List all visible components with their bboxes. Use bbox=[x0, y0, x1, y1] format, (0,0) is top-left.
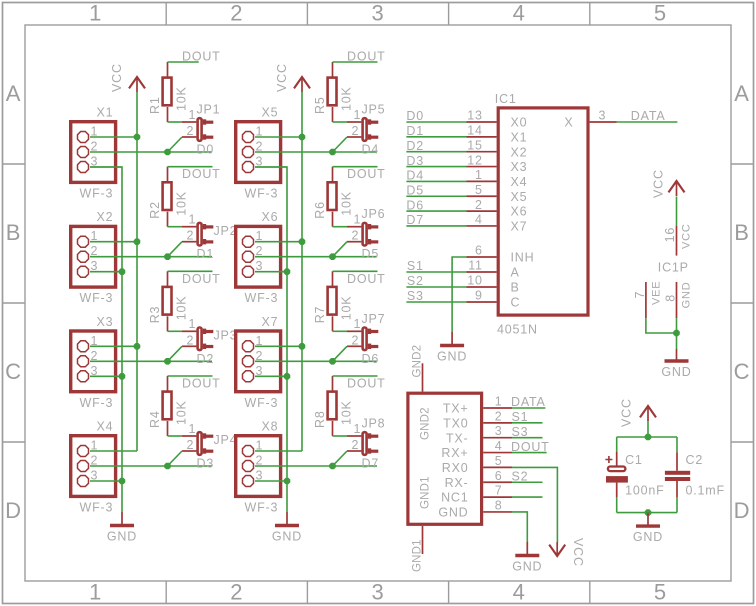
svg-text:WF-3: WF-3 bbox=[80, 291, 114, 305]
capacitor C2 0.1mF bbox=[665, 452, 725, 497]
svg-text:S2: S2 bbox=[407, 274, 424, 288]
wire net D7 horizontal bbox=[255, 465, 377, 467]
wire R4 to JP4 pin1 bbox=[168, 435, 183, 437]
wire GND bus column 1 bbox=[90, 167, 122, 512]
connector U$1 (TX/RX) bbox=[408, 345, 512, 572]
svg-text:GND2: GND2 bbox=[420, 407, 432, 440]
pin TX+ of connector bbox=[483, 407, 512, 409]
svg-text:0.1mF: 0.1mF bbox=[686, 484, 725, 498]
svg-text:A: A bbox=[511, 266, 520, 280]
svg-text:4: 4 bbox=[475, 213, 483, 227]
svg-text:2: 2 bbox=[352, 124, 360, 138]
svg-text:C1: C1 bbox=[625, 453, 643, 467]
svg-text:6: 6 bbox=[475, 244, 483, 258]
svg-text:GND: GND bbox=[661, 365, 691, 379]
svg-text:8: 8 bbox=[495, 498, 503, 512]
svg-text:GND: GND bbox=[107, 530, 137, 544]
svg-text:3: 3 bbox=[599, 109, 607, 123]
junction GND bus column 1 row 4 bbox=[119, 478, 126, 485]
wire VCC bus column 2 bbox=[301, 92, 303, 451]
wire X3 pin1 to VCC bus bbox=[90, 345, 137, 347]
wire JP2 pin2 diagonal bbox=[168, 242, 183, 257]
svg-text:R1: R1 bbox=[148, 96, 162, 114]
svg-text:TX-: TX- bbox=[446, 431, 469, 445]
svg-text:DOUT: DOUT bbox=[347, 167, 386, 181]
connector X4 (WF-3) bbox=[71, 420, 116, 515]
jumper JP1 bbox=[182, 103, 220, 141]
svg-text:WF-3: WF-3 bbox=[80, 501, 114, 515]
wire R8 to JP8 pin1 bbox=[333, 435, 348, 437]
svg-text:S1: S1 bbox=[512, 410, 529, 424]
wire net S3 at connector bbox=[512, 437, 543, 439]
svg-text:DATA: DATA bbox=[511, 395, 546, 409]
pin INH of IC1 bbox=[467, 256, 497, 258]
svg-text:X: X bbox=[564, 116, 573, 130]
wire net DOUT at connector bbox=[512, 452, 547, 454]
svg-text:JP2: JP2 bbox=[214, 224, 238, 238]
wire net DOUT stub row 4 col 2 bbox=[333, 375, 378, 377]
power part IC1P bbox=[633, 223, 693, 318]
junction net D6 bbox=[329, 358, 336, 365]
supply VCC column 2 arrow bbox=[275, 63, 310, 92]
svg-text:GND: GND bbox=[681, 282, 693, 309]
wire C1 bottom branch bbox=[616, 497, 618, 513]
jumper JP7 bbox=[347, 312, 385, 350]
wire net D6 horizontal bbox=[255, 360, 377, 362]
svg-text:GND1: GND1 bbox=[412, 539, 424, 572]
svg-text:10: 10 bbox=[467, 274, 483, 288]
svg-text:S2: S2 bbox=[512, 469, 529, 483]
svg-text:100nF: 100nF bbox=[625, 484, 664, 498]
svg-text:R8: R8 bbox=[313, 410, 327, 428]
svg-text:C2: C2 bbox=[686, 453, 704, 467]
junction net D2 bbox=[164, 358, 171, 365]
pin A of IC1 bbox=[467, 271, 497, 273]
svg-text:8: 8 bbox=[664, 294, 678, 302]
svg-text:NC1: NC1 bbox=[441, 491, 468, 505]
svg-text:4: 4 bbox=[513, 580, 526, 605]
svg-text:2: 2 bbox=[230, 580, 243, 605]
svg-text:X5: X5 bbox=[262, 106, 279, 120]
svg-text:RX+: RX+ bbox=[441, 446, 468, 460]
ground GND at IC1P bbox=[661, 349, 691, 379]
svg-text:VCC: VCC bbox=[110, 63, 124, 92]
svg-text:GND: GND bbox=[633, 530, 663, 544]
supply VCC at IC1P bbox=[652, 169, 685, 198]
wire GND bus column 2 bbox=[255, 167, 287, 512]
resistor R4 10K bbox=[148, 376, 189, 436]
svg-text:1: 1 bbox=[89, 0, 102, 25]
svg-text:4: 4 bbox=[495, 439, 503, 453]
svg-text:D0: D0 bbox=[197, 143, 215, 157]
wire net D1 horizontal bbox=[90, 256, 212, 258]
svg-text:RX0: RX0 bbox=[442, 461, 469, 475]
svg-text:D2: D2 bbox=[406, 139, 424, 153]
wire X5 pin1 to VCC bus bbox=[255, 136, 302, 138]
junction GND bus column 1 row 2 bbox=[119, 268, 126, 275]
svg-text:4051N: 4051N bbox=[497, 323, 538, 337]
svg-text:R2: R2 bbox=[148, 201, 162, 219]
svg-text:JP6: JP6 bbox=[362, 207, 386, 221]
pin C of IC1 bbox=[467, 301, 497, 303]
svg-text:DOUT: DOUT bbox=[511, 440, 550, 454]
wire net S2 at IC1 bbox=[406, 286, 466, 288]
svg-text:1: 1 bbox=[354, 422, 362, 436]
supply VCC at capacitors bbox=[620, 398, 657, 427]
svg-text:JP5: JP5 bbox=[362, 103, 386, 117]
pin X2 of IC1 bbox=[467, 151, 497, 153]
wire JP1 pin2 diagonal bbox=[168, 137, 183, 152]
wire GND pin to junction bbox=[676, 318, 678, 333]
svg-text:S1: S1 bbox=[407, 259, 424, 273]
svg-text:IC1: IC1 bbox=[495, 92, 517, 106]
wire JP8 pin2 diagonal bbox=[333, 451, 348, 466]
junction capacitor bottom rail bbox=[645, 509, 652, 516]
svg-text:TX+: TX+ bbox=[443, 402, 469, 416]
svg-text:JP3: JP3 bbox=[214, 329, 238, 343]
wire VCC to capacitor rail bbox=[647, 421, 649, 437]
wire RX0 to VCC bbox=[512, 467, 557, 542]
wire net D3 horizontal bbox=[90, 465, 212, 467]
svg-text:IC1P: IC1P bbox=[658, 261, 689, 275]
ground GND at INH bbox=[437, 332, 467, 364]
svg-text:WF-3: WF-3 bbox=[245, 501, 279, 515]
wire JP3 pin2 diagonal bbox=[168, 346, 183, 361]
svg-text:B: B bbox=[734, 220, 749, 245]
svg-text:10K: 10K bbox=[340, 296, 354, 321]
wire R5 to JP5 pin1 bbox=[333, 121, 348, 123]
svg-text:S3: S3 bbox=[512, 425, 529, 439]
svg-text:10K: 10K bbox=[340, 400, 354, 425]
wire C2 bottom branch bbox=[676, 497, 678, 513]
svg-text:DOUT: DOUT bbox=[347, 377, 386, 391]
wire net D4 horizontal bbox=[255, 151, 377, 153]
pin X1 of IC1 bbox=[467, 136, 497, 138]
svg-text:C: C bbox=[511, 296, 521, 310]
junction GND bus column 2 row 2 bbox=[284, 268, 291, 275]
svg-text:1: 1 bbox=[354, 108, 362, 122]
svg-text:VCC: VCC bbox=[620, 398, 634, 427]
resistor R1 10K bbox=[148, 62, 189, 122]
svg-text:X3: X3 bbox=[511, 160, 528, 174]
svg-text:C: C bbox=[734, 359, 751, 384]
wire net DOUT stub row 2 col 2 bbox=[333, 166, 378, 168]
wire net DOUT stub row 4 col 1 bbox=[168, 375, 213, 377]
svg-text:11: 11 bbox=[468, 259, 483, 273]
svg-text:10K: 10K bbox=[340, 191, 354, 216]
svg-text:D4: D4 bbox=[362, 143, 380, 157]
junction net D7 bbox=[329, 463, 336, 470]
svg-text:14: 14 bbox=[467, 124, 483, 138]
svg-text:3: 3 bbox=[495, 424, 503, 438]
wire net S1 at connector bbox=[512, 422, 543, 424]
jumper JP2 bbox=[182, 213, 237, 246]
pin X3 of IC1 bbox=[467, 166, 497, 168]
junction VCC bus column 1 row 1 bbox=[134, 134, 141, 141]
svg-text:X7: X7 bbox=[262, 315, 279, 329]
wire R7 to JP7 pin1 bbox=[333, 330, 348, 332]
wire X5 pin3 to GND bus bbox=[255, 166, 287, 168]
wire net S1 at IC1 bbox=[406, 271, 466, 273]
svg-text:X2: X2 bbox=[97, 210, 114, 224]
wire X2 pin3 to GND bus bbox=[90, 271, 122, 273]
svg-text:15: 15 bbox=[467, 138, 483, 152]
svg-text:3: 3 bbox=[371, 580, 384, 605]
wire VCC to IC1P pin 16 bbox=[676, 197, 678, 227]
svg-text:B: B bbox=[6, 220, 21, 245]
svg-text:VCC: VCC bbox=[571, 538, 585, 567]
svg-text:D6: D6 bbox=[406, 198, 424, 212]
junction net D3 bbox=[164, 463, 171, 470]
wire X4 pin3 to GND bus bbox=[90, 480, 122, 482]
svg-text:D0: D0 bbox=[406, 109, 424, 123]
wire X6 pin3 to GND bus bbox=[255, 271, 287, 273]
wire net DATA at IC1 bbox=[617, 121, 678, 123]
svg-text:1: 1 bbox=[89, 580, 102, 605]
svg-text:DOUT: DOUT bbox=[182, 167, 221, 181]
wire net D1 at IC1 bbox=[406, 136, 466, 138]
wire VEE/GND to ground bbox=[646, 318, 677, 333]
svg-text:10K: 10K bbox=[175, 86, 189, 111]
svg-text:1: 1 bbox=[354, 317, 362, 331]
svg-text:10K: 10K bbox=[175, 296, 189, 321]
pin B of IC1 bbox=[467, 286, 497, 288]
wire net DOUT stub row 2 col 1 bbox=[168, 166, 213, 168]
connector X7 (WF-3) bbox=[236, 315, 281, 410]
junction VCC bus column 1 row 2 bbox=[134, 238, 141, 245]
svg-text:9: 9 bbox=[475, 289, 483, 303]
pin RX0 of connector bbox=[483, 466, 512, 468]
svg-text:WF-3: WF-3 bbox=[245, 396, 279, 410]
svg-text:VCC: VCC bbox=[652, 169, 666, 198]
wire VCC bus column 1 bbox=[136, 92, 138, 451]
pin RX- of connector bbox=[483, 481, 512, 483]
svg-text:R4: R4 bbox=[148, 410, 162, 428]
wire X6 pin1 to VCC bus bbox=[255, 241, 302, 243]
svg-text:VCC: VCC bbox=[275, 63, 289, 92]
junction IC1P ground bbox=[673, 330, 680, 337]
svg-text:2: 2 bbox=[187, 229, 195, 243]
svg-text:JP8: JP8 bbox=[362, 417, 386, 431]
wire junction to ground at IC1P bbox=[676, 333, 678, 349]
svg-text:GND2: GND2 bbox=[412, 345, 424, 378]
svg-text:1: 1 bbox=[189, 108, 197, 122]
svg-text:4: 4 bbox=[513, 0, 526, 25]
frame row labels left bbox=[5, 81, 22, 523]
jumper JP5 bbox=[347, 103, 385, 141]
svg-text:VCC: VCC bbox=[681, 223, 693, 249]
junction VCC bus column 1 row 3 bbox=[134, 343, 141, 350]
pin X5 of IC1 bbox=[467, 195, 497, 197]
connector X3 (WF-3) bbox=[71, 315, 116, 410]
svg-text:X6: X6 bbox=[262, 210, 279, 224]
svg-text:1: 1 bbox=[354, 213, 362, 227]
jumper JP8 bbox=[347, 417, 385, 455]
svg-text:X1: X1 bbox=[511, 130, 528, 144]
connector X8 (WF-3) bbox=[236, 420, 281, 515]
wire R6 to JP6 pin1 bbox=[333, 226, 348, 228]
connector X2 (WF-3) bbox=[71, 210, 116, 305]
svg-text:R3: R3 bbox=[148, 306, 162, 324]
svg-text:5: 5 bbox=[654, 0, 667, 25]
svg-text:2: 2 bbox=[187, 438, 195, 452]
svg-text:2: 2 bbox=[352, 229, 360, 243]
svg-text:10K: 10K bbox=[175, 400, 189, 425]
svg-text:RX-: RX- bbox=[445, 476, 469, 490]
svg-text:1: 1 bbox=[189, 213, 197, 227]
wire net D4 at IC1 bbox=[406, 180, 466, 182]
wire X2 pin1 to VCC bus bbox=[90, 241, 137, 243]
pin NC1 of connector bbox=[483, 496, 512, 498]
svg-text:3: 3 bbox=[371, 0, 384, 25]
svg-text:D2: D2 bbox=[197, 352, 215, 366]
svg-text:2: 2 bbox=[352, 333, 360, 347]
wire X7 pin1 to VCC bus bbox=[255, 345, 302, 347]
svg-text:1: 1 bbox=[495, 395, 503, 409]
svg-text:13: 13 bbox=[467, 109, 483, 123]
wire net D2 at IC1 bbox=[406, 151, 466, 153]
svg-text:JP1: JP1 bbox=[197, 103, 221, 117]
svg-text:DOUT: DOUT bbox=[182, 272, 221, 286]
svg-text:TX0: TX0 bbox=[443, 416, 468, 430]
wire JP6 pin2 diagonal bbox=[333, 242, 348, 257]
jumper JP4 bbox=[182, 422, 237, 455]
wire JP7 pin2 diagonal bbox=[333, 346, 348, 361]
svg-text:GND: GND bbox=[438, 506, 468, 520]
ground GND at capacitors bbox=[633, 513, 663, 545]
frame row dividers right bbox=[731, 164, 754, 442]
wire X1 pin1 to VCC bus bbox=[90, 136, 137, 138]
svg-text:S3: S3 bbox=[407, 289, 424, 303]
svg-text:2: 2 bbox=[495, 409, 503, 423]
svg-text:6: 6 bbox=[495, 469, 503, 483]
svg-text:GND1: GND1 bbox=[420, 476, 432, 509]
ground GND column 1 bbox=[107, 512, 137, 544]
wire net D6 at IC1 bbox=[406, 210, 466, 212]
svg-text:7: 7 bbox=[495, 484, 503, 498]
wire JP4 pin2 diagonal bbox=[168, 451, 183, 466]
frame column labels bottom bbox=[89, 580, 667, 605]
wire X8 pin3 to GND bus bbox=[255, 480, 287, 482]
svg-text:2: 2 bbox=[230, 0, 243, 25]
svg-text:WF-3: WF-3 bbox=[80, 396, 114, 410]
pin GND of connector bbox=[483, 511, 512, 513]
wire net DOUT stub row 3 col 1 bbox=[168, 270, 213, 272]
resistor R6 10K bbox=[313, 167, 354, 227]
junction VCC bus column 2 row 3 bbox=[299, 343, 306, 350]
junction net D5 bbox=[329, 253, 336, 260]
svg-text:5: 5 bbox=[495, 454, 503, 468]
pin X4 of IC1 bbox=[467, 180, 497, 182]
junction GND bus column 2 row 3 bbox=[284, 373, 291, 380]
frame row labels right bbox=[734, 81, 751, 523]
wire net DOUT stub row 3 col 2 bbox=[333, 270, 378, 272]
capacitor C1 100nF bbox=[605, 452, 664, 498]
junction VCC bus column 2 row 1 bbox=[299, 134, 306, 141]
svg-text:A: A bbox=[6, 81, 21, 106]
svg-text:R5: R5 bbox=[313, 96, 327, 114]
wire net DATA at connector bbox=[512, 407, 545, 409]
svg-text:DOUT: DOUT bbox=[347, 50, 386, 64]
wire net S2 at connector bbox=[512, 481, 543, 483]
svg-text:B: B bbox=[511, 281, 520, 295]
ground GND column 2 bbox=[272, 512, 302, 544]
wire net D7 at IC1 bbox=[406, 225, 466, 227]
svg-text:D7: D7 bbox=[406, 213, 424, 227]
svg-text:D3: D3 bbox=[197, 457, 215, 471]
wire capacitor top rail bbox=[617, 436, 677, 438]
svg-text:2: 2 bbox=[187, 124, 195, 138]
svg-text:D7: D7 bbox=[362, 457, 380, 471]
svg-text:X4: X4 bbox=[511, 175, 528, 189]
svg-text:GND: GND bbox=[437, 350, 467, 364]
svg-text:DOUT: DOUT bbox=[182, 50, 221, 64]
svg-text:D3: D3 bbox=[406, 154, 424, 168]
svg-text:16: 16 bbox=[663, 227, 677, 243]
wire X8 pin1 to VCC bus bbox=[255, 450, 302, 452]
svg-text:7: 7 bbox=[633, 291, 647, 299]
svg-text:X3: X3 bbox=[97, 315, 114, 329]
wire NC1 stub bbox=[512, 496, 543, 498]
svg-text:D5: D5 bbox=[362, 247, 380, 261]
wire net DOUT stub row 1 col 1 bbox=[168, 61, 199, 63]
svg-text:2: 2 bbox=[352, 438, 360, 452]
pin X7 of IC1 bbox=[467, 225, 497, 227]
resistor R2 10K bbox=[148, 167, 189, 227]
svg-text:X8: X8 bbox=[262, 420, 279, 434]
junction net D1 bbox=[164, 253, 171, 260]
jumper JP3 bbox=[182, 317, 237, 350]
pin GND2 of connector bbox=[422, 363, 424, 391]
svg-text:D1: D1 bbox=[197, 247, 215, 261]
svg-text:X2: X2 bbox=[511, 145, 528, 159]
pin GND1 of connector bbox=[422, 526, 424, 554]
svg-text:R6: R6 bbox=[313, 201, 327, 219]
svg-text:5: 5 bbox=[475, 183, 483, 197]
svg-text:WF-3: WF-3 bbox=[80, 187, 114, 201]
svg-text:X0: X0 bbox=[511, 116, 528, 130]
svg-text:D: D bbox=[734, 498, 751, 523]
svg-text:D5: D5 bbox=[406, 183, 424, 197]
wire capacitor bottom rail bbox=[617, 512, 677, 514]
frame column labels top bbox=[89, 0, 667, 25]
pin X6 of IC1 bbox=[467, 210, 497, 212]
svg-text:DOUT: DOUT bbox=[182, 377, 221, 391]
svg-text:GND: GND bbox=[272, 530, 302, 544]
junction GND bus column 2 row 4 bbox=[284, 478, 291, 485]
resistor R8 10K bbox=[313, 376, 354, 436]
pin X output of IC1 bbox=[590, 121, 617, 123]
svg-text:X4: X4 bbox=[97, 420, 114, 434]
wire net D3 at IC1 bbox=[406, 166, 466, 168]
wire net D5 at IC1 bbox=[406, 195, 466, 197]
ic IC1 4051N bbox=[467, 92, 617, 337]
svg-text:DATA: DATA bbox=[631, 109, 666, 123]
wire GND pin to ground bbox=[512, 512, 527, 542]
svg-text:10K: 10K bbox=[175, 191, 189, 216]
svg-text:D4: D4 bbox=[406, 169, 424, 183]
svg-text:C: C bbox=[5, 359, 22, 384]
svg-text:X6: X6 bbox=[511, 205, 528, 219]
svg-text:DOUT: DOUT bbox=[347, 272, 386, 286]
pin TX- of connector bbox=[483, 437, 512, 439]
resistor R3 10K bbox=[148, 271, 189, 331]
wire net D2 horizontal bbox=[90, 360, 212, 362]
frame column dividers top bbox=[166, 3, 590, 26]
jumper JP6 bbox=[347, 207, 385, 245]
wire C2 top branch bbox=[676, 437, 678, 452]
connector X5 (WF-3) bbox=[236, 106, 281, 201]
